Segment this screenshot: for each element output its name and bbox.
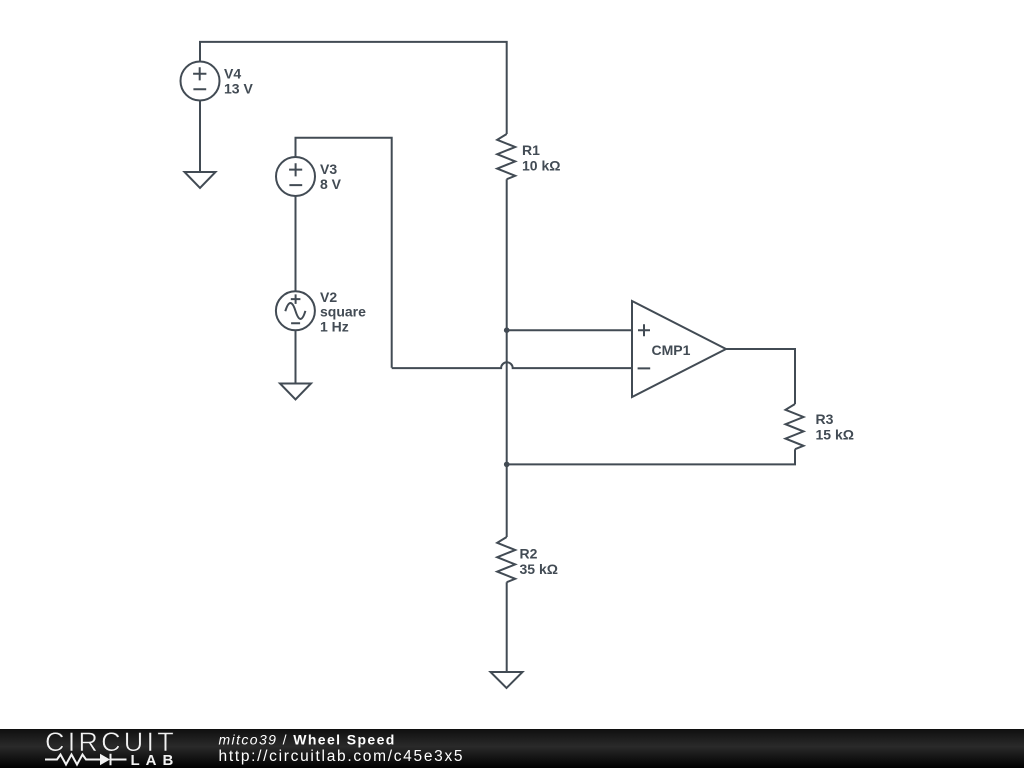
ground for V2 bbox=[280, 384, 311, 400]
node junction plus input bbox=[504, 327, 510, 333]
svg-text:15 kΩ: 15 kΩ bbox=[816, 427, 854, 443]
svg-text:square: square bbox=[320, 304, 366, 320]
svg-text:R3: R3 bbox=[816, 411, 834, 427]
svg-text:13 V: 13 V bbox=[224, 81, 253, 97]
svg-text:CMP1: CMP1 bbox=[652, 342, 691, 358]
wire R1 bottom to R2 top bbox=[506, 179, 508, 537]
resistor R1 bbox=[497, 134, 515, 179]
voltage source V2 bbox=[276, 291, 315, 330]
wire plus input bbox=[507, 329, 632, 331]
wire R2 bottom to ground bbox=[506, 582, 508, 672]
label R2 value bbox=[520, 546, 558, 578]
svg-text:8 V: 8 V bbox=[320, 176, 342, 192]
wire V3 top to corner bbox=[296, 138, 392, 368]
wire V4 bottom to ground bbox=[199, 101, 201, 173]
svg-text:1 Hz: 1 Hz bbox=[320, 319, 349, 335]
svg-text:R2: R2 bbox=[520, 546, 538, 562]
voltage source V3 bbox=[276, 157, 315, 196]
footer bar bbox=[0, 729, 1024, 768]
op-amp U1 comparator CMP1 bbox=[632, 301, 726, 397]
ground for V4 bbox=[185, 172, 216, 188]
logo resistor diode symbol bbox=[45, 754, 127, 765]
voltage source V4 bbox=[181, 62, 220, 101]
label V4 value bbox=[224, 66, 253, 97]
svg-text:10 kΩ: 10 kΩ bbox=[522, 158, 560, 174]
ground for R2 bbox=[491, 672, 523, 688]
wire CMP1 output to R3 top bbox=[726, 349, 795, 404]
wire V2 bottom to ground bbox=[295, 330, 297, 383]
resistor R3 bbox=[786, 404, 804, 449]
svg-text:http://circuitlab.com/c45e3x5: http://circuitlab.com/c45e3x5 bbox=[219, 748, 465, 765]
resistor R2 bbox=[497, 537, 515, 582]
svg-text:V3: V3 bbox=[320, 161, 337, 177]
wire V3 bottom to V2 top bbox=[295, 196, 297, 291]
svg-text:LAB: LAB bbox=[131, 752, 180, 768]
wire minus input with hop bbox=[392, 362, 632, 368]
wire R3 bottom feedback to junction bbox=[507, 449, 795, 464]
label R1 value bbox=[522, 142, 560, 174]
svg-text:mitco39 / Wheel Speed: mitco39 / Wheel Speed bbox=[219, 732, 396, 748]
wire V4 top to R1 top bbox=[200, 42, 507, 134]
label CMP1 bbox=[652, 342, 691, 358]
label V2 value bbox=[320, 289, 366, 335]
label V3 value bbox=[320, 161, 342, 192]
svg-text:R1: R1 bbox=[522, 142, 540, 158]
svg-text:35 kΩ: 35 kΩ bbox=[520, 561, 558, 577]
node junction feedback bbox=[504, 462, 510, 468]
label R3 value bbox=[816, 411, 854, 443]
svg-text:V4: V4 bbox=[224, 66, 241, 82]
